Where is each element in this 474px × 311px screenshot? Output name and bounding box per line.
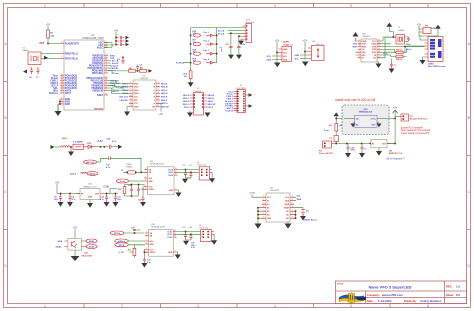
ground U8 — [376, 148, 382, 156]
+5V usb right arrow — [427, 25, 441, 37]
net arrow J4 right bottom — [249, 104, 253, 108]
svg-text:SEG.C: SEG.C — [161, 90, 168, 92]
svg-text:SQW: SQW — [284, 204, 289, 206]
svg-text:16: 16 — [378, 40, 380, 42]
svg-text:2: 2 — [121, 4, 123, 8]
svg-text:28: 28 — [61, 87, 63, 89]
svg-text:VDDO: VDDO — [149, 189, 155, 191]
ground C36 — [359, 153, 365, 158]
ground C32 C33 — [183, 241, 189, 246]
ground CH340 left — [353, 32, 359, 37]
svg-text:R32 1k: R32 1k — [396, 59, 403, 61]
svg-text:AMS1117-3.3: AMS1117-3.3 — [83, 185, 97, 188]
svg-text:13: 13 — [130, 105, 132, 107]
node SET.Amp — [115, 243, 145, 247]
svg-text:KeyPad: KeyPad — [225, 111, 233, 113]
svg-text:VBAT: VBAT — [284, 207, 290, 210]
svg-text:1: 1 — [106, 62, 107, 64]
svg-text:3: 3 — [292, 206, 293, 208]
wire encoder pin4 — [239, 35, 243, 37]
svg-text:3: 3 — [197, 4, 199, 8]
capacitor C9 — [69, 193, 77, 202]
svg-text:TITLE:: TITLE: — [337, 284, 344, 286]
svg-text:8: 8 — [158, 92, 159, 94]
capacitor C25 — [137, 187, 144, 194]
svg-text:SEG.F: SEG.F — [208, 101, 215, 103]
capacitor C26 — [182, 165, 187, 178]
svg-text:5: 5 — [61, 100, 62, 102]
svg-text:RXD: RXD — [362, 46, 367, 48]
svg-text:20: 20 — [105, 94, 107, 96]
ground R13 — [188, 82, 194, 87]
J3 left labels — [183, 94, 190, 109]
svg-text:ADC.F: ADC.F — [112, 90, 119, 93]
svg-text:10: 10 — [378, 56, 380, 58]
wire MCU PB4 to U4 — [108, 88, 129, 93]
svg-text:1: 1 — [44, 4, 46, 8]
U1 left pin names — [65, 43, 80, 106]
wires CH340 left — [356, 38, 358, 55]
capacitor C16 — [106, 157, 144, 174]
+5V under U4 — [159, 103, 164, 116]
svg-text:1.8: 1.8 — [456, 285, 460, 289]
resistor R40 — [128, 245, 145, 258]
capacitor C34 — [143, 258, 152, 264]
svg-text:Andrey Belokon: Andrey Belokon — [420, 299, 442, 303]
node A(B)out — [115, 239, 145, 243]
svg-text:24: 24 — [61, 77, 63, 79]
svg-text:CLK: CLK — [134, 97, 139, 99]
svg-text:13: 13 — [175, 168, 177, 170]
svg-text:SEG.DP: SEG.DP — [161, 106, 169, 108]
svg-text:+7.2V: +7.2V — [97, 141, 104, 143]
crystal Y2 12MHz — [396, 27, 405, 44]
svg-text:25MHz: 25MHz — [126, 166, 133, 168]
svg-text:PB5(SCK): PB5(SCK) — [92, 90, 103, 92]
wire +5V output rail — [387, 111, 396, 145]
svg-text:6: 6 — [359, 54, 360, 56]
svg-text:1: 1 — [130, 92, 131, 94]
svg-text:12: 12 — [378, 51, 380, 53]
svg-text:CONTROL: CONTROL — [236, 88, 247, 90]
resistor R18 — [193, 49, 201, 55]
svg-text:MEGA328: MEGA328 — [94, 107, 103, 110]
node RTS DTR — [383, 48, 412, 55]
+5V DISP1 — [275, 39, 280, 49]
ground J3 left — [187, 111, 193, 118]
svg-text:2: 2 — [145, 168, 146, 170]
inductor L2 — [61, 138, 71, 147]
svg-text:UD-: UD- — [362, 55, 366, 57]
U20 pin numbers — [146, 232, 148, 253]
diode VD5 — [204, 50, 216, 55]
svg-text:DIG.4: DIG.4 — [123, 92, 129, 95]
IC U6 DS1307 — [262, 187, 294, 222]
svg-text:TXD: TXD — [353, 44, 358, 46]
ground Y2 top — [386, 23, 393, 32]
svg-text:13: 13 — [174, 230, 176, 232]
svg-text:Key 3: Key 3 — [204, 50, 210, 52]
svg-text:P-on: P-on — [324, 130, 330, 132]
stub dots U6 right — [294, 210, 296, 219]
svg-text:1: 1 — [146, 248, 147, 250]
svg-text:OUT+: OUT+ — [371, 118, 377, 120]
svg-text:1: 1 — [145, 185, 146, 187]
svg-text:power supply connected P4: power supply connected P4 — [401, 132, 430, 135]
svg-text:3: 3 — [61, 98, 62, 100]
U1 right pin stubs — [104, 43, 108, 96]
svg-text:+5V: +5V — [417, 23, 422, 27]
crystal Y1 — [22, 48, 41, 65]
svg-text:SEG.F: SEG.F — [161, 100, 168, 102]
svg-text:CLK1: CLK1 — [168, 172, 173, 174]
svg-text:SDA: SDA — [58, 240, 63, 243]
node SCL SDA rtc — [297, 196, 302, 202]
svg-text:3: 3 — [146, 234, 147, 236]
resistor R5 — [329, 118, 343, 136]
svg-text:+5V: +5V — [46, 23, 51, 27]
wire keypad to encoder — [191, 27, 246, 29]
+5V pullup symbol — [219, 47, 223, 52]
svg-text:SCL: SCL — [267, 56, 272, 58]
ground mic left — [51, 145, 61, 149]
svg-text:+5V: +5V — [114, 29, 119, 33]
ground arrow left of caps — [23, 70, 27, 74]
svg-text:+1.25: +1.25 — [118, 252, 124, 254]
svg-text:Key 1: Key 1 — [204, 32, 210, 34]
svg-text:AVCC: AVCC — [97, 46, 104, 49]
svg-text:GND: GND — [169, 190, 174, 192]
wires bias row — [125, 184, 145, 197]
frame column ticks bottom — [84, 304, 390, 308]
wire resistors row — [108, 69, 152, 73]
svg-text:GND: GND — [168, 252, 173, 254]
svg-text:21: 21 — [61, 103, 63, 105]
svg-text:GND: GND — [267, 218, 272, 220]
svg-text:U8 on heatsink !!!: U8 on heatsink !!! — [386, 158, 405, 161]
logo ukrainian flag with trident — [339, 295, 364, 300]
resistor R37 — [118, 187, 126, 194]
capacitor C27 — [189, 165, 193, 178]
svg-text:Install only one of U30 or U8: Install only one of U30 or U8 — [335, 98, 375, 102]
+5V H4 — [303, 39, 308, 49]
capacitor C32 — [182, 227, 187, 240]
svg-text:7: 7 — [145, 177, 146, 179]
capacitor C11 — [114, 193, 122, 202]
ground U9 — [176, 190, 182, 197]
ground C11 — [113, 202, 119, 207]
svg-text:6: 6 — [263, 213, 264, 215]
svg-text:9: 9 — [158, 95, 159, 97]
svg-text:Nano VFO 3 SuperLED: Nano VFO 3 SuperLED — [368, 285, 411, 290]
U4 pin numbers — [130, 82, 132, 107]
svg-text:BEAD: BEAD — [90, 172, 96, 175]
ground CH340 — [376, 62, 382, 68]
svg-text:ATMEGA328_TQFP: ATMEGA328_TQFP — [82, 37, 104, 40]
svg-text:8: 8 — [61, 57, 62, 59]
ground DISP1 — [274, 63, 281, 68]
+5V net arrow left of module — [333, 112, 342, 118]
U1 right net labels — [110, 55, 125, 93]
svg-text:Company:: Company: — [367, 293, 380, 297]
svg-text:1: 1 — [44, 304, 46, 308]
node Enc.A — [218, 29, 243, 32]
svg-text:X1: X1 — [267, 201, 269, 203]
frame column ticks top — [84, 4, 390, 8]
svg-text:DTR: DTR — [372, 49, 377, 51]
svg-text:SEG.G: SEG.G — [161, 103, 168, 105]
svg-text:+7.2V: +7.2V — [249, 193, 255, 195]
svg-text:SDA: SDA — [285, 200, 290, 203]
node SDA1 out — [85, 239, 97, 243]
capacitor C10 — [100, 193, 108, 202]
IC U20 SI5351 — [145, 224, 177, 256]
capacitor C6 — [29, 67, 33, 79]
wire MCU PB3 to U4 — [108, 86, 129, 91]
svg-text:5: 5 — [350, 304, 352, 308]
U4 left pins — [129, 84, 133, 107]
svg-text:TX.out: TX.out — [112, 72, 119, 75]
capacitor C7 — [36, 67, 40, 79]
svg-text:74LVC1G07: 74LVC1G07 — [81, 254, 93, 257]
U4 right pins — [156, 84, 160, 107]
svg-text:PC6(/RESET): PC6(/RESET) — [65, 43, 80, 45]
J3 right labels — [208, 95, 216, 109]
op: +5V symbol above R1 — [46, 23, 51, 31]
wire R1 to RESET pin — [48, 38, 60, 44]
svg-text:12: 12 — [105, 77, 107, 79]
IC U11 CH340G — [358, 34, 381, 63]
svg-text:C33: C33 — [189, 227, 192, 229]
IC U8 AMS1117-5.0 — [369, 139, 404, 155]
svg-text:SDA5: SDA5 — [56, 245, 63, 248]
+5V Q1 — [73, 226, 78, 239]
svg-text:SEG.E: SEG.E — [161, 97, 168, 99]
ground arrow between xtal wires — [44, 56, 48, 60]
svg-text:R37: R37 — [118, 189, 121, 191]
svg-text:6: 6 — [427, 4, 429, 8]
svg-text:SEG.G: SEG.G — [183, 104, 190, 106]
svg-text:+5V: +5V — [219, 47, 223, 49]
svg-text:TX.S: TX.S — [383, 54, 388, 56]
svg-text:15: 15 — [378, 42, 380, 44]
node KeyPad — [176, 63, 185, 65]
svg-text:26: 26 — [61, 82, 63, 84]
svg-text:15: 15 — [130, 99, 132, 101]
svg-text:5: 5 — [263, 210, 264, 212]
svg-text:SEG.C: SEG.C — [183, 98, 190, 100]
wire MCU PB1 to U4 — [108, 83, 129, 87]
svg-text:7: 7 — [61, 52, 62, 54]
svg-text:3: 3 — [145, 171, 146, 173]
svg-text:5: 5 — [292, 203, 293, 205]
svg-text:Key 2: Key 2 — [204, 41, 210, 43]
capacitor C1 decoupling — [115, 43, 125, 46]
wires U9 clk out — [178, 170, 200, 179]
svg-text:AMS1117-5.0: AMS1117-5.0 — [389, 152, 403, 155]
svg-text:1/2: 1/2 — [456, 293, 460, 297]
IC U4 TM1650 — [133, 76, 156, 111]
crystal X2 25MHz — [121, 163, 144, 174]
resistor R31 — [396, 50, 403, 54]
ground J6 — [211, 234, 217, 245]
svg-text:OUT-: OUT- — [371, 124, 376, 126]
node SDA SCL h4 — [294, 54, 299, 61]
node SDA2 out — [85, 245, 97, 249]
svg-text:GND: GND — [88, 197, 93, 199]
wire Y1 to XTAL2 — [41, 58, 60, 60]
svg-text:27: 27 — [61, 84, 63, 86]
capacitor C28 — [107, 139, 118, 149]
connector P4 power in — [319, 141, 334, 155]
svg-text:SEG8: SEG8 — [195, 91, 202, 93]
svg-text:29: 29 — [61, 42, 63, 44]
ground C13 — [228, 55, 234, 60]
wires R31 R32 — [381, 49, 407, 56]
svg-text:C25: C25 — [141, 189, 144, 191]
svg-text:X2: X2 — [267, 204, 269, 206]
svg-text:TM1650: TM1650 — [140, 78, 149, 80]
svg-text:C27: C27 — [189, 165, 192, 167]
svg-text:19: 19 — [61, 89, 63, 91]
transistor Q1 block — [65, 239, 85, 251]
svg-text:AREF: AREF — [97, 94, 104, 97]
node SCL SDA disp — [266, 56, 271, 62]
svg-text:VDDO: VDDO — [150, 252, 156, 254]
svg-text:MIC1: MIC1 — [62, 138, 68, 140]
capacitor C8 — [54, 193, 62, 202]
capacitor C3 decoupling — [115, 40, 125, 43]
svg-text:3: 3 — [197, 304, 199, 308]
ground C10 — [104, 202, 110, 207]
label U14 — [81, 252, 93, 258]
svg-text:LED.DIO: LED.DIO — [120, 100, 129, 102]
svg-text:6: 6 — [427, 304, 429, 308]
svg-text:+5V: +5V — [275, 39, 280, 43]
svg-text:CLK0: CLK0 — [167, 231, 172, 233]
note jumper P1 — [400, 126, 430, 135]
wires CH340 to crystal — [381, 32, 397, 58]
svg-text:12: 12 — [174, 233, 176, 235]
svg-text:F2: F2 — [121, 170, 123, 172]
net arrow J4 right top — [249, 93, 253, 97]
left ADC net labels — [49, 74, 59, 95]
diode VD4 — [204, 41, 216, 46]
svg-text:Encoder: Encoder — [246, 21, 254, 24]
svg-text:+5V: +5V — [303, 39, 308, 43]
ground U10 — [87, 200, 93, 208]
frame row ticks left — [4, 82, 8, 230]
U9 pin numbers — [145, 168, 147, 190]
svg-text:CR2032 BS-2.1: CR2032 BS-2.1 — [303, 219, 318, 221]
svg-text:SEG.A: SEG.A — [183, 94, 190, 97]
capacitor C33 — [189, 227, 193, 240]
svg-text:+3.3V: +3.3V — [103, 187, 110, 189]
svg-text:11: 11 — [175, 174, 177, 176]
svg-text:2: 2 — [106, 64, 107, 66]
filter FB1 — [73, 141, 84, 149]
+5V USB pwr — [417, 23, 422, 30]
svg-text:PB7(XTAL2): PB7(XTAL2) — [65, 57, 78, 60]
+5V reg — [55, 181, 80, 194]
svg-text:3: 3 — [359, 45, 360, 47]
svg-text:SDA: SDA — [283, 58, 288, 61]
svg-text:11: 11 — [157, 102, 159, 104]
svg-text:RST: RST — [40, 42, 45, 45]
resistor R32 — [396, 55, 403, 61]
J4 left labels — [225, 91, 234, 112]
ground U1 — [55, 111, 62, 116]
svg-text:GND: GND — [362, 41, 367, 43]
svg-text:17: 17 — [105, 89, 107, 91]
svg-text:Enable TX Power: Enable TX Power — [410, 119, 428, 121]
node SDA in — [58, 240, 63, 243]
svg-text:MINI560(5.0V): MINI560(5.0V) — [359, 112, 373, 114]
U4 pin names — [134, 83, 139, 108]
frame row ticks right — [467, 82, 471, 230]
svg-text:15: 15 — [105, 84, 107, 86]
svg-text:SEG.D: SEG.D — [208, 98, 215, 100]
svg-text:LED.CLK: LED.CLK — [119, 97, 129, 99]
wires rtc right — [294, 197, 303, 208]
svg-text:CH340G: CH340G — [362, 36, 371, 38]
svg-text:SI5351A-B-GT: SI5351A-B-GT — [150, 163, 165, 166]
svg-text:1: 1 — [263, 199, 264, 201]
svg-text:3: 3 — [263, 206, 264, 208]
svg-text:5: 5 — [350, 4, 352, 8]
svg-text:F.out: F.out — [120, 180, 125, 183]
module U30 dashed area — [342, 105, 389, 135]
svg-text:11: 11 — [378, 54, 380, 56]
svg-text:10: 10 — [157, 99, 159, 101]
resistor R9 — [140, 68, 147, 72]
svg-text:11: 11 — [105, 72, 107, 74]
svg-text:16: 16 — [105, 87, 107, 89]
resistor R13 pulldown — [184, 63, 193, 83]
svg-text:470u: 470u — [351, 149, 356, 152]
ground USB — [420, 57, 426, 65]
stub dots U6 left — [257, 207, 262, 219]
svg-text:7: 7 — [146, 240, 147, 242]
svg-text:TXD: TXD — [362, 44, 366, 46]
svg-text:8: 8 — [263, 196, 264, 198]
svg-text:12: 12 — [175, 171, 177, 173]
svg-text:CLK1: CLK1 — [167, 234, 172, 236]
svg-text:7: 7 — [158, 89, 159, 91]
svg-text:C22: C22 — [138, 200, 141, 202]
svg-text:4: 4 — [274, 304, 276, 308]
svg-text:R31 1k: R31 1k — [396, 50, 403, 52]
diode VD3 — [204, 32, 216, 37]
connector H4 aux display — [308, 41, 324, 61]
ground C26 C27 — [182, 178, 191, 183]
svg-text:2: 2 — [146, 232, 147, 234]
svg-text:Date:: Date: — [367, 299, 374, 303]
wires DISP1 — [272, 48, 279, 63]
svg-text:CLK2: CLK2 — [168, 175, 173, 177]
svg-text:4: 4 — [274, 4, 276, 8]
diode VD6 — [204, 58, 216, 64]
svg-text:5.0-28MHz: 5.0-28MHz — [73, 141, 83, 143]
battery B1 — [301, 208, 318, 222]
svg-text:SDA: SDA — [149, 180, 154, 183]
ground arrows caps bank — [126, 36, 130, 47]
node +7.2V rtc — [249, 193, 262, 198]
svg-text:DCD: DCD — [372, 52, 377, 54]
wire VCC VDDO — [144, 250, 146, 259]
svg-text:CLK0 Out: CLK0 Out — [199, 227, 209, 230]
wires USB data — [381, 36, 426, 52]
